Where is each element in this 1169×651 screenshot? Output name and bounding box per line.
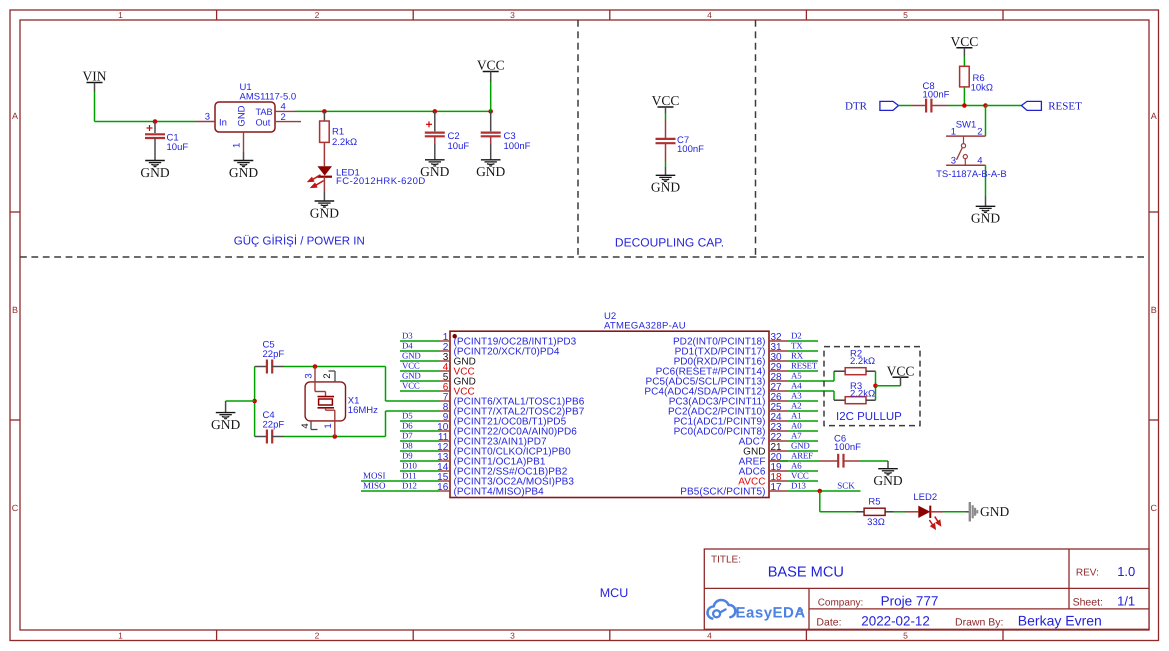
svg-text:GND: GND — [873, 473, 902, 488]
U1 pin 2 Out stub — [275, 121, 301, 123]
svg-text:A: A — [12, 111, 18, 121]
svg-text:GND: GND — [402, 351, 421, 361]
ground under SW1 — [985, 196, 987, 206]
wire LED2 to ground — [930, 511, 943, 513]
svg-text:A5: A5 — [791, 371, 802, 381]
wire C4 to crystal bottom — [284, 436, 386, 438]
svg-text:In: In — [219, 118, 227, 129]
wire R6 to reset net — [963, 87, 965, 106]
wire junction to RESET port — [986, 105, 1022, 107]
wire pin 19 — [788, 470, 818, 472]
U2 pin 4 VCC — [440, 370, 450, 372]
wire pin 18 — [788, 480, 818, 482]
svg-text:GND: GND — [980, 504, 1009, 519]
junction reset net 1 — [962, 103, 967, 108]
U2 pin 15 (PCINT3/OC2A/MOSI)PB3 — [440, 480, 450, 482]
ground under C3 — [490, 136, 492, 144]
svg-text:Sheet:: Sheet: — [1073, 597, 1103, 609]
svg-text:GND: GND — [211, 417, 240, 432]
svg-text:EasyEDA: EasyEDA — [736, 605, 806, 622]
section divider dashed vertical 2 — [755, 20, 757, 257]
junction pullup to VCC — [873, 384, 878, 389]
svg-text:A2: A2 — [791, 401, 801, 411]
ground at crystal — [225, 401, 227, 413]
svg-text:2: 2 — [315, 631, 320, 641]
resistor R2 2.2k — [845, 368, 866, 375]
svg-text:BASE MCU: BASE MCU — [768, 564, 844, 580]
svg-text:1: 1 — [323, 423, 334, 428]
svg-text:D12: D12 — [402, 481, 417, 491]
LED1 FC-2012HRK-620D — [317, 166, 332, 175]
svg-text:A0: A0 — [791, 421, 802, 431]
title block outline — [704, 549, 1149, 629]
ground right of LED2 sideways — [966, 511, 969, 513]
svg-text:3: 3 — [205, 111, 210, 122]
svg-text:2: 2 — [281, 112, 286, 123]
port RESET — [1021, 101, 1041, 110]
U2 pin 10 (PCINT22/OC0A/AIN0)PD6 — [440, 430, 450, 432]
U2 pin 27 PC4(ADC4/SDA/PCINT12) — [769, 390, 788, 392]
capacitor C2 10uF polarized — [434, 111, 436, 131]
X1 pin 2 stub — [334, 371, 336, 382]
svg-text:GND: GND — [140, 165, 169, 180]
wire net label to pin 15 — [361, 480, 440, 482]
LED2 emission arrows — [929, 517, 940, 529]
U2 pin 20 AREF — [769, 460, 788, 462]
svg-text:3: 3 — [951, 156, 956, 167]
wire D13 down to R5 — [819, 491, 821, 512]
svg-text:D2: D2 — [791, 331, 801, 341]
wire vertical to U2 pin7 — [385, 367, 387, 402]
wire SW1 pin4 to ground — [985, 165, 987, 196]
svg-text:D4: D4 — [402, 341, 413, 351]
svg-text:1: 1 — [118, 10, 123, 20]
svg-text:SCK: SCK — [837, 481, 855, 491]
svg-text:5: 5 — [903, 631, 908, 641]
U2 pin 3 GND — [440, 360, 450, 362]
junction at C2 — [433, 109, 438, 114]
svg-text:GND: GND — [420, 164, 449, 179]
svg-text:D8: D8 — [402, 441, 413, 451]
U2 pin 18 AVCC — [769, 480, 788, 482]
junction D13 — [818, 489, 823, 494]
wire net label to pin 6 — [400, 390, 440, 392]
U1 pin 3 In — [196, 121, 215, 123]
svg-text:RESET: RESET — [1048, 101, 1082, 113]
svg-text:GND: GND — [237, 105, 248, 126]
svg-text:REV:: REV: — [1076, 567, 1099, 578]
wire A4 to R3 — [833, 391, 835, 400]
svg-text:4: 4 — [281, 101, 286, 112]
wire pin 28 to pullup — [788, 380, 834, 382]
wire pin 32 — [788, 340, 818, 342]
wire net label to pin 3 — [400, 360, 440, 362]
wire pin 21 — [788, 450, 818, 452]
ground under U1 — [243, 152, 245, 161]
svg-text:16MHz: 16MHz — [348, 405, 378, 416]
svg-text:VCC: VCC — [652, 93, 680, 108]
wire net label to pin 2 — [400, 350, 440, 352]
svg-text:4: 4 — [707, 10, 712, 20]
svg-text:TX: TX — [791, 341, 803, 351]
svg-text:1.0: 1.0 — [1117, 564, 1135, 579]
svg-text:R5: R5 — [868, 496, 880, 507]
LED2 — [918, 506, 930, 518]
capacitor C8 100nF — [911, 105, 926, 107]
svg-text:(PCINT4/MISO)PB4: (PCINT4/MISO)PB4 — [454, 487, 545, 498]
wire to SW1 pin 2 — [985, 106, 987, 137]
svg-text:A1: A1 — [791, 411, 801, 421]
U2 pin 12 (PCINT0/CLKO/ICP1)PB0 — [440, 450, 450, 452]
svg-text:22pF: 22pF — [263, 420, 285, 431]
svg-text:DECOUPLING CAP.: DECOUPLING CAP. — [615, 235, 724, 249]
svg-text:DTR: DTR — [845, 101, 868, 113]
resistor R3 2.2k — [845, 397, 866, 404]
wire A5 to R2 — [833, 371, 835, 381]
svg-text:B: B — [1151, 305, 1157, 315]
svg-text:4: 4 — [977, 156, 982, 167]
svg-text:B: B — [12, 305, 18, 315]
ground under C1 — [154, 138, 156, 161]
regulator U1 AMS1117-5.0 — [215, 102, 275, 132]
svg-text:D5: D5 — [402, 411, 413, 421]
U1 pin 1 GND — [243, 132, 245, 152]
frame column ticks bottom — [216, 630, 218, 641]
svg-text:GND: GND — [229, 165, 258, 180]
svg-text:Company:: Company: — [818, 598, 864, 609]
svg-text:17: 17 — [771, 482, 783, 493]
svg-text:GND: GND — [651, 180, 680, 195]
svg-text:D11: D11 — [402, 471, 416, 481]
wire net label to pin 14 — [400, 470, 440, 472]
junction at C1 — [153, 119, 158, 124]
EasyEDA logo cloud — [707, 600, 735, 619]
svg-text:1/1: 1/1 — [1117, 594, 1135, 609]
svg-text:D7: D7 — [402, 431, 413, 441]
svg-text:LED2: LED2 — [913, 492, 937, 503]
svg-text:VCC: VCC — [951, 34, 979, 49]
svg-text:2: 2 — [315, 10, 320, 20]
I2C pullup dashed box — [824, 347, 920, 426]
svg-text:C: C — [12, 503, 19, 513]
svg-text:Out: Out — [256, 118, 271, 128]
svg-text:4: 4 — [707, 631, 712, 641]
U2 pin 24 PC1(ADC1/PCINT9) — [769, 420, 788, 422]
frame row ticks left — [10, 211, 20, 213]
junction at R1 — [322, 109, 327, 114]
svg-text:GND: GND — [476, 164, 505, 179]
U2 pin 7 (PCINT6/XTAL1/TOSC1)PB6 — [440, 400, 450, 402]
LED1 emission arrows — [309, 175, 324, 187]
svg-text:100nF: 100nF — [677, 144, 704, 155]
svg-text:VCC: VCC — [402, 381, 420, 391]
svg-text:10kΩ: 10kΩ — [971, 82, 993, 93]
svg-text:100nF: 100nF — [504, 141, 531, 152]
wire pin 26 — [788, 400, 818, 402]
U2 pin 16 (PCINT4/MISO)PB4 — [440, 490, 450, 492]
svg-text:4: 4 — [300, 423, 311, 428]
svg-text:AREF: AREF — [791, 451, 813, 461]
svg-text:3: 3 — [510, 10, 515, 20]
wire DTR to C8 — [899, 105, 912, 107]
svg-text:3: 3 — [304, 373, 315, 378]
wire pin 31 — [788, 350, 818, 352]
ground under LED1 — [323, 192, 325, 202]
wire R5 to LED2 — [894, 511, 906, 513]
svg-text:1: 1 — [118, 631, 123, 641]
svg-text:RX: RX — [791, 351, 804, 361]
junction reset net 2 — [983, 103, 988, 108]
svg-text:10uF: 10uF — [448, 141, 470, 152]
svg-text:D10: D10 — [402, 461, 417, 471]
U1 pin 4 TAB — [275, 110, 295, 112]
svg-text:D3: D3 — [402, 331, 413, 341]
resistor R5 33ohm — [864, 508, 885, 515]
wire junction to ground — [226, 400, 255, 402]
resistor R1 2.2k — [323, 111, 325, 121]
svg-text:D9: D9 — [402, 451, 413, 461]
svg-text:5: 5 — [903, 10, 908, 20]
U2 pin 28 PC5(ADC5/SCL/PCINT13) — [769, 380, 788, 382]
svg-text:D6: D6 — [402, 421, 413, 431]
U2 pin 17 PB5(SCK/PCINT5) — [769, 490, 788, 492]
wire pin 17 D13 SCK — [788, 490, 861, 492]
svg-text:2022-02-12: 2022-02-12 — [861, 613, 930, 628]
wire pin 30 — [788, 360, 818, 362]
svg-text:VCC: VCC — [402, 361, 420, 371]
svg-text:2.2kΩ: 2.2kΩ — [850, 389, 875, 400]
junction left gnd — [252, 399, 257, 404]
U2 pin 31 PD1(TXD/PCINT17) — [769, 350, 788, 352]
U2 pin 29 PC6(RESET#/PCINT14) — [769, 370, 788, 372]
U2 pin 6 VCC — [440, 390, 450, 392]
wire C5 to crystal top — [284, 366, 386, 368]
svg-text:10uF: 10uF — [167, 142, 189, 153]
wire pin 24 — [788, 420, 818, 422]
U2 pin 19 ADC6 — [769, 470, 788, 472]
frame column ticks top — [216, 10, 218, 20]
svg-text:GND: GND — [402, 371, 421, 381]
svg-text:2: 2 — [977, 126, 982, 137]
junction crystal pin3 top — [313, 364, 318, 369]
junction at VCC tap — [488, 109, 493, 114]
U2 pin 23 PC0(ADC0/PCINT8) — [769, 430, 788, 432]
svg-text:33Ω: 33Ω — [867, 517, 885, 528]
wire net label to pin 11 — [400, 440, 440, 442]
wire vertical to U2 pin8 — [385, 411, 387, 437]
frame row ticks right — [1149, 211, 1159, 213]
wire VIN to U1 In — [95, 121, 197, 123]
wire 5V rail from U1 TAB to VCC — [295, 110, 491, 112]
capacitor C6 100nF — [837, 454, 839, 468]
svg-text:D13: D13 — [791, 481, 806, 491]
svg-text:22pF: 22pF — [263, 349, 285, 360]
svg-text:GND: GND — [791, 441, 810, 451]
wire left vertical C5-C4 — [254, 367, 256, 437]
U2 pin 32 PD2(INT0/PCINT18) — [769, 340, 788, 342]
wire net label to pin 16 — [361, 490, 440, 492]
title block dividers — [704, 587, 1149, 589]
wire AREF to C6 — [769, 460, 780, 462]
svg-text:Date:: Date: — [816, 616, 841, 628]
resistor R6 10k — [960, 66, 970, 87]
U2 pin 25 PC2(ADC2/PCINT10) — [769, 410, 788, 412]
wire net label to pin 4 — [400, 370, 440, 372]
U2 pin 9 (PCINT21/OC0B/T1)PD5 — [440, 420, 450, 422]
svg-text:I2C PULLUP: I2C PULLUP — [836, 411, 902, 423]
capacitor C3 100nF — [490, 111, 492, 131]
svg-text:SW1: SW1 — [956, 120, 977, 131]
svg-text:A6: A6 — [791, 461, 802, 471]
U2 pin 13 (PCINT1/OC1A)PB1 — [440, 460, 450, 462]
svg-text:3: 3 — [510, 631, 515, 641]
svg-text:2: 2 — [322, 373, 333, 378]
svg-text:FC-2012HRK-620D: FC-2012HRK-620D — [336, 176, 426, 187]
U2 pin 8 (PCINT7/XTAL2/TOSC2)PB7 — [440, 410, 450, 412]
svg-text:GÜÇ GİRİŞİ / POWER IN: GÜÇ GİRİŞİ / POWER IN — [234, 235, 365, 248]
svg-text:A3: A3 — [791, 391, 802, 401]
svg-text:TAB: TAB — [256, 107, 273, 117]
svg-text:TITLE:: TITLE: — [711, 555, 741, 566]
svg-text:Proje 777: Proje 777 — [881, 594, 939, 609]
wire net label to pin 9 — [400, 420, 440, 422]
svg-text:Drawn By:: Drawn By: — [955, 616, 1003, 628]
wire crystal to pin 7 — [386, 400, 441, 402]
svg-text:C: C — [1150, 503, 1157, 513]
U2 pin 21 GND — [769, 450, 788, 452]
wire pin 29 — [788, 370, 818, 372]
wire net label to pin 10 — [400, 430, 440, 432]
U2 pin 30 PD0(RXD/PCINT16) — [769, 360, 788, 362]
wire pin 27 to pullup — [788, 390, 834, 392]
svg-text:AMS1117-5.0: AMS1117-5.0 — [240, 92, 297, 103]
svg-text:VCC: VCC — [791, 471, 809, 481]
U2 pin 11 (PCINT23/AIN1)PD7 — [440, 440, 450, 442]
svg-text:MISO: MISO — [363, 481, 386, 491]
ground under C7 — [665, 167, 667, 175]
svg-text:GND: GND — [971, 211, 1000, 226]
ground at C6 — [887, 461, 889, 469]
junction crystal pin1 bottom — [333, 434, 338, 439]
wire pin 25 — [788, 410, 818, 412]
svg-text:MCU: MCU — [600, 586, 628, 600]
svg-text:100nF: 100nF — [834, 442, 861, 453]
crystal X1 16MHz — [305, 382, 345, 421]
wire pin 23 — [788, 430, 818, 432]
wire net label to pin 12 — [400, 450, 440, 452]
U2 pin 14 (PCINT2/SS#/OC1B)PB2 — [440, 470, 450, 472]
port DTR — [880, 101, 899, 110]
EasyEDA logo registered mark — [799, 609, 802, 612]
wire net label to pin 13 — [400, 460, 440, 462]
svg-text:VCC: VCC — [477, 58, 505, 73]
svg-text:VCC: VCC — [887, 363, 915, 378]
svg-text:1: 1 — [232, 143, 243, 148]
svg-text:TS-1187A-B-A-B: TS-1187A-B-A-B — [936, 169, 1007, 180]
ground under C2 — [434, 136, 436, 144]
wire net label to pin 1 — [400, 340, 440, 342]
U2 pin 5 GND — [440, 380, 450, 382]
wire net label to pin 5 — [400, 380, 440, 382]
svg-text:GND: GND — [310, 205, 339, 220]
svg-text:MOSI: MOSI — [363, 471, 386, 481]
svg-text:2.2kΩ: 2.2kΩ — [332, 137, 357, 148]
svg-text:A7: A7 — [791, 431, 802, 441]
U2 pin 2 (PCINT20/XCK/T0)PD4 — [440, 350, 450, 352]
wire crystal to pin 8 — [386, 410, 441, 412]
svg-text:1: 1 — [951, 126, 956, 137]
U2 pin 22 ADC7 — [769, 440, 788, 442]
svg-text:A: A — [1151, 111, 1157, 121]
wire VIN vertical — [94, 92, 96, 122]
svg-text:A4: A4 — [791, 381, 802, 391]
svg-text:100nF: 100nF — [923, 89, 950, 100]
section divider dashed horizontal — [20, 256, 1149, 258]
wire C8 to junction — [948, 105, 986, 107]
wire pin 22 — [788, 440, 818, 442]
U2 pin1 indicator dot — [453, 334, 457, 338]
svg-text:PB5(SCK/PCINT5): PB5(SCK/PCINT5) — [680, 487, 765, 498]
svg-text:ATMEGA328P-AU: ATMEGA328P-AU — [604, 321, 686, 332]
X1 pin 4 stub — [310, 421, 312, 430]
capacitor C7 100nF — [665, 119, 667, 138]
svg-text:VIN: VIN — [83, 69, 107, 84]
section divider dashed vertical 1 — [577, 20, 579, 257]
MCU U2 ATMEGA328P-AU body — [450, 331, 769, 497]
svg-text:Berkay Evren: Berkay Evren — [1018, 612, 1102, 628]
U2 pin 1 (PCINT19/OC2B/INT1)PD3 — [440, 340, 450, 342]
wire pullup common — [875, 371, 877, 400]
svg-text:2.2kΩ: 2.2kΩ — [850, 356, 875, 367]
capacitor C1 10uF polarized — [154, 122, 156, 134]
U2 pin 26 PC3(ADC3/PCINT11) — [769, 400, 788, 402]
svg-text:RESET: RESET — [791, 361, 818, 371]
